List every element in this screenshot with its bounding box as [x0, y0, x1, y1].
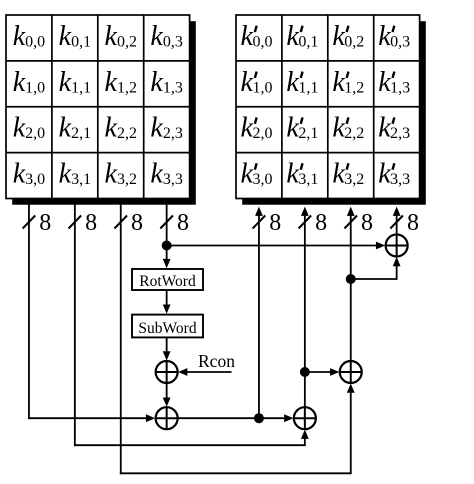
cell label k'3,2 [332, 159, 364, 190]
left key matrix k drop shadow [12, 21, 196, 205]
wire w5 vertical rise from XOR B [304, 215, 306, 407]
svg-text:8: 8 [39, 210, 51, 236]
cell label k'3,0 [241, 159, 273, 190]
XOR D (w3 + w6) output w7 [386, 235, 408, 257]
bus slash on w0 [23, 216, 36, 229]
svg-text:0,1: 0,1 [298, 33, 318, 50]
wire w3 vertical drop from left matrix column 3 to RotWord [166, 203, 168, 262]
arrow into right matrix column 1 [301, 207, 309, 216]
svg-text:2,0: 2,0 [252, 125, 272, 142]
wire w7 vertical rise from XOR D [396, 215, 398, 234]
bus slash on w3 [160, 216, 173, 229]
arrow into XOR B left [284, 414, 293, 422]
arrow into XOR C left [330, 368, 339, 376]
wire Rcon feed [187, 371, 232, 373]
svg-text:3,1: 3,1 [298, 171, 318, 188]
svg-text:1,2: 1,2 [344, 79, 364, 96]
bus slash on w6 [344, 216, 357, 229]
right key matrix k' horizontal grid line 1 [236, 60, 420, 62]
svg-text:SubWord: SubWord [138, 320, 196, 337]
bus slash on w4 [253, 216, 266, 229]
svg-text:8: 8 [269, 210, 281, 236]
cell label k'0,1 [286, 21, 318, 52]
right key matrix k' vertical grid line 2 [327, 15, 329, 199]
svg-text:1,0: 1,0 [252, 79, 272, 96]
wire w6 branch horizontal [351, 278, 398, 280]
arrow into SubWord top [163, 305, 171, 314]
right key matrix k' outer box [236, 15, 420, 199]
arrow into XOR A top [163, 398, 171, 407]
arrow into RotWord top [163, 259, 171, 268]
svg-text:3,2: 3,2 [344, 171, 364, 188]
cell label k'1,2 [332, 67, 364, 98]
svg-text:1,3: 1,3 [390, 79, 410, 96]
junction dot on w3 tap [162, 241, 172, 251]
bus slash on w7 [390, 216, 403, 229]
bus slash on w2 [114, 216, 127, 229]
arrow into XOR B bottom [301, 430, 309, 439]
cell label k'0,2 [332, 21, 364, 52]
svg-text:Rcon: Rcon [198, 351, 235, 371]
wire w2 vertical rise to XOR C [350, 392, 352, 473]
wire SubWord to XOR E [166, 337, 168, 352]
svg-text:RotWord: RotWord [139, 273, 196, 290]
wire RotWord to SubWord [166, 290, 168, 307]
cell label k'3,1 [286, 159, 318, 190]
wire XOR E to XOR A [166, 383, 168, 398]
svg-text:2,1: 2,1 [298, 125, 318, 142]
left key matrix k vertical grid line 2 [97, 15, 99, 199]
wire w3 tap horizontal run to XOR D [167, 245, 377, 247]
SubWord function box [132, 315, 203, 338]
svg-text:1,1: 1,1 [298, 79, 318, 96]
cell label k'2,0 [241, 113, 273, 144]
arrow into XOR E top [163, 351, 171, 360]
junction dot w4 branch [254, 413, 264, 423]
right key matrix k' horizontal grid line 2 [236, 106, 420, 108]
cell label k'1,3 [378, 67, 410, 98]
cell label k'2,1 [286, 113, 318, 144]
left key matrix k outer box [6, 15, 190, 199]
svg-text:2,3: 2,3 [390, 125, 410, 142]
svg-text:3,3: 3,3 [390, 171, 410, 188]
arrow into XOR C bottom [347, 383, 355, 392]
arrow into XOR D left [376, 242, 385, 250]
cell label k'1,0 [241, 67, 273, 98]
svg-text:8: 8 [85, 210, 97, 236]
wire w1 horizontal run along bottom [74, 444, 306, 446]
arrow into XOR D bottom [393, 257, 401, 266]
right key matrix k' horizontal grid line 3 [236, 152, 420, 154]
RotWord function box [132, 269, 203, 290]
left key matrix k horizontal grid line 3 [6, 152, 190, 154]
arrow into XOR A left [146, 414, 155, 422]
wire w2 horizontal run along bottom [120, 472, 352, 474]
XOR B (w4 + w1) output w5 [294, 407, 316, 429]
svg-text:8: 8 [315, 210, 327, 236]
wire w0 vertical drop from left matrix column 0 [28, 203, 30, 420]
arrow into XOR E right [178, 368, 187, 376]
arrow into right matrix column 2 [347, 207, 355, 216]
cell label k'0,0 [241, 21, 273, 52]
wire w0 horizontal run to XOR A [29, 417, 147, 419]
svg-text:2,2: 2,2 [344, 125, 364, 142]
junction dot w5 branch [300, 367, 310, 377]
wire w6 vertical rise from XOR C [350, 215, 352, 361]
arrow into right matrix column 0 [255, 207, 263, 216]
arrow into right matrix column 3 [393, 207, 401, 216]
left key matrix k horizontal grid line 2 [6, 106, 190, 108]
XOR C (w5 + w2) output w6 [340, 361, 362, 383]
svg-text:8: 8 [361, 210, 373, 236]
wire w1 vertical rise to XOR B [304, 438, 306, 445]
left key matrix k vertical grid line 3 [143, 15, 145, 199]
cell label k'2,2 [332, 113, 364, 144]
svg-text:0,3: 0,3 [390, 33, 410, 50]
wire w4 vertical rise to right matrix column 0 [258, 215, 260, 418]
left key matrix k vertical grid line 1 [51, 15, 53, 199]
svg-text:8: 8 [177, 210, 189, 236]
cell label k'0,3 [378, 21, 410, 52]
right key matrix k' vertical grid line 3 [373, 15, 375, 199]
svg-text:8: 8 [131, 210, 143, 236]
svg-text:3,0: 3,0 [252, 171, 272, 188]
cell label k'1,1 [286, 67, 318, 98]
wire w6 branch vertical rise to XOR D [396, 265, 398, 279]
XOR E (SubWord output + Rcon) [156, 361, 178, 383]
cell label k'2,3 [378, 113, 410, 144]
wire w1 vertical drop from left matrix column 1 [74, 203, 76, 447]
left key matrix k horizontal grid line 1 [6, 60, 190, 62]
wire w5 branch to XOR C [305, 371, 331, 373]
wire w2 vertical drop from left matrix column 2 [120, 203, 122, 475]
svg-text:0,0: 0,0 [252, 33, 272, 50]
bus slash on w1 [69, 216, 82, 229]
right key matrix k' vertical grid line 1 [281, 15, 283, 199]
svg-text:0,2: 0,2 [344, 33, 364, 50]
wire w4 horizontal run from XOR A to XOR B [178, 417, 285, 419]
bus slash on w5 [299, 216, 312, 229]
junction dot w6 branch [346, 274, 356, 284]
XOR A (w0 + g(w3)) output w4 [156, 407, 178, 429]
svg-text:8: 8 [407, 210, 419, 236]
right key matrix k' drop shadow [242, 21, 426, 205]
cell label k'3,3 [378, 159, 410, 190]
